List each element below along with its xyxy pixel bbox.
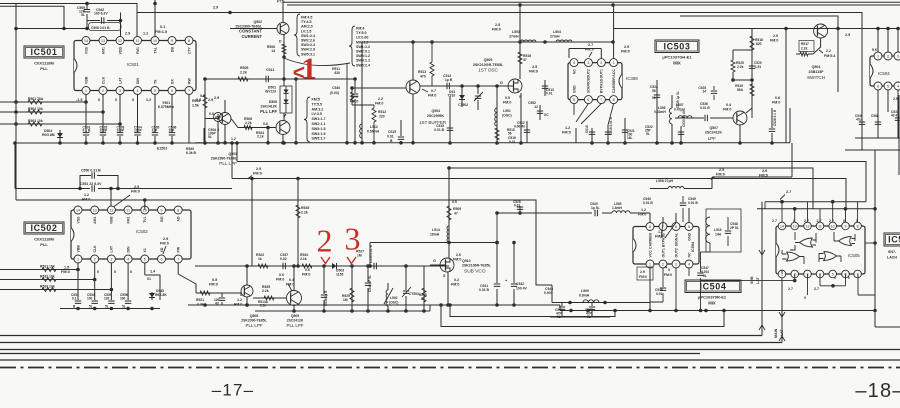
svg-text:1: 1	[77, 257, 79, 261]
resistor R506	[244, 126, 252, 130]
svg-text:9: 9	[845, 224, 847, 228]
svg-text:SWITCH: SWITCH	[807, 75, 825, 80]
svg-text:FM:0: FM:0	[529, 70, 538, 74]
IC504 label box	[685, 280, 741, 293]
shield box	[706, 209, 741, 252]
capacitor C509	[86, 4, 88, 10]
svg-text:6.375MHz: 6.375MHz	[158, 105, 174, 109]
svg-text:Q504: Q504	[431, 109, 440, 113]
svg-text:FM:0: FM:0	[759, 174, 768, 178]
capacitor C506	[168, 133, 175, 136]
capacitor C521	[624, 118, 626, 143]
svg-text:11: 11	[126, 208, 130, 212]
svg-text:2.2k: 2.2k	[240, 71, 247, 75]
bus line 4	[0, 353, 700, 355]
wire 1st osc gate row	[430, 85, 508, 87]
svg-text:5L: 5L	[105, 305, 109, 309]
svg-text:0.01 B: 0.01 B	[434, 128, 444, 132]
op IC504 package	[633, 227, 699, 265]
svg-text:4: 4	[127, 257, 129, 261]
inductor L504	[556, 40, 572, 42]
svg-text:5L: 5L	[208, 135, 212, 139]
svg-text:820: 820	[756, 42, 762, 46]
resistor R517 box	[799, 41, 814, 52]
svg-text:TY:5.0: TY:5.0	[356, 31, 367, 35]
svg-text:22: 22	[421, 297, 425, 301]
svg-text:OUT2: OUT2	[587, 69, 591, 78]
svg-text:0.6: 0.6	[305, 268, 310, 272]
resistor R505	[238, 77, 248, 81]
svg-text:2.2k: 2.2k	[737, 65, 744, 69]
svg-text:C515: C515	[388, 130, 396, 134]
svg-text:L509: L509	[581, 289, 589, 293]
svg-text:C0X1118M: C0X1118M	[34, 61, 54, 66]
wire top bus D y=12.5	[680, 16, 838, 29]
svg-text:1: 1	[301, 51, 317, 86]
svg-text:2.7: 2.7	[829, 219, 834, 223]
svg-text:C551 22 6.3V: C551 22 6.3V	[80, 182, 102, 186]
svg-text:0: 0	[848, 276, 850, 280]
wire IC501 bottom pin drops	[85, 95, 87, 144]
wire IC502 left rows	[0, 270, 111, 290]
capacitor C540	[354, 79, 356, 143]
wire x497 riser	[496, 213, 498, 243]
IC502 label box	[24, 222, 64, 234]
svg-text:5: 5	[887, 84, 889, 88]
svg-text:1.5k: 1.5k	[192, 104, 199, 108]
svg-text:9: 9	[161, 208, 163, 212]
wire ic505 right rail	[874, 209, 876, 327]
varactor D510	[461, 86, 463, 107]
svg-text:R545: R545	[301, 206, 309, 210]
svg-text:6: 6	[877, 84, 879, 88]
svg-text:8: 8	[857, 224, 859, 228]
svg-text:IC503: IC503	[663, 41, 690, 51]
svg-text:PLL: PLL	[40, 242, 48, 247]
svg-text:2.2k: 2.2k	[245, 121, 252, 125]
svg-text:OUT1: OUT1	[600, 69, 604, 78]
svg-text:5: 5	[144, 257, 146, 261]
svg-text:CARRIER: CARRIER	[612, 77, 616, 93]
wire 1st osc source	[520, 93, 522, 143]
svg-text:2.2k: 2.2k	[801, 47, 808, 51]
svg-text:12: 12	[534, 105, 538, 109]
svg-text:E1501: E1501	[157, 147, 167, 151]
resistor R522	[258, 264, 268, 268]
svg-text:0: 0	[114, 270, 116, 274]
svg-text:TAL: TAL	[153, 46, 157, 53]
svg-text:1.2: 1.2	[84, 193, 89, 197]
svg-text:100P: 100P	[100, 129, 109, 133]
svg-text:R513: R513	[418, 70, 426, 74]
svg-text:2.1k: 2.1k	[300, 257, 307, 261]
svg-text:0.01 B: 0.01 B	[700, 106, 710, 110]
wire left resistor rows	[0, 102, 120, 124]
wire ic505 top wires	[757, 202, 875, 209]
inductor L501 OSC	[496, 86, 498, 143]
wire Q511 base row	[196, 292, 241, 294]
svg-text:VBB: VBB	[110, 216, 114, 224]
svg-text:FM:0: FM:0	[585, 48, 594, 52]
svg-text:2.9: 2.9	[773, 34, 778, 38]
wire to IC504 pin1	[635, 268, 650, 311]
wire mid band y=178.5	[232, 143, 846, 209]
svg-text:MIX: MIX	[708, 301, 716, 306]
svg-text:1ST OSC: 1ST OSC	[478, 68, 498, 73]
svg-text:CTY: CTY	[187, 46, 191, 54]
svg-text:SUB: SUB	[750, 276, 754, 284]
svg-text:5L: 5L	[122, 305, 126, 309]
svg-text:5L: 5L	[652, 96, 656, 100]
svg-text:2SK2090-TE85L: 2SK2090-TE85L	[241, 319, 266, 323]
svg-text:R505: R505	[240, 66, 248, 70]
wire IC502 pin10 riser	[144, 200, 146, 210]
svg-text:27mH: 27mH	[550, 35, 560, 39]
svg-text:FM:0: FM:0	[492, 28, 501, 32]
svg-text:SW4:1.2: SW4:1.2	[356, 59, 370, 63]
svg-text:10: 10	[153, 39, 157, 43]
svg-text:DIN: DIN	[136, 78, 140, 85]
svg-text:IC502: IC502	[30, 223, 57, 233]
svg-text:SW2:2.6: SW2:2.6	[301, 39, 315, 43]
svg-text:13: 13	[93, 208, 97, 212]
svg-text:5L: 5L	[703, 274, 707, 278]
svg-text:27mH: 27mH	[509, 35, 519, 39]
trimmer CT502	[477, 86, 479, 110]
bus line 5	[0, 359, 900, 361]
svg-text:BO: BO	[160, 216, 164, 222]
svg-text:47μ: 47μ	[856, 118, 862, 122]
wire main bottom ground	[188, 305, 875, 311]
svg-text:2.7: 2.7	[804, 219, 809, 223]
svg-text:FM:0: FM:0	[428, 94, 436, 98]
svg-text:18mH: 18mH	[430, 233, 440, 237]
svg-text:2SK210GR-TE85L: 2SK210GR-TE85L	[473, 63, 504, 67]
svg-text:TY33: TY33	[447, 94, 455, 98]
inductor L505b	[612, 211, 630, 213]
svg-text:FM:0: FM:0	[350, 100, 358, 104]
svg-text:DB: DB	[170, 47, 174, 53]
svg-text:1: 1	[649, 262, 651, 266]
capacitor C512	[526, 121, 528, 143]
transistor Q507 lpf	[733, 111, 747, 125]
svg-text:6: 6	[171, 89, 173, 93]
svg-text:6: 6	[587, 98, 589, 102]
svg-text:AM:3.2: AM:3.2	[312, 107, 324, 111]
wire top bus C	[287, 4, 900, 6]
wire y=242.5	[370, 243, 497, 267]
svg-text:VSS: VSS	[84, 46, 88, 54]
capacitor C528r	[771, 108, 773, 143]
ground wire ic503 block riser	[789, 108, 791, 143]
svg-text:SIGNAL: SIGNAL	[674, 232, 678, 246]
svg-text:L504: L504	[553, 30, 561, 34]
op IC505 package	[776, 226, 865, 274]
capacitor C557	[221, 293, 223, 305]
svg-text:0.4: 0.4	[289, 278, 294, 282]
svg-text:–17–: –17–	[212, 381, 255, 400]
wire y79 extension	[284, 78, 355, 80]
svg-text:CONSTANT: CONSTANT	[239, 29, 262, 34]
svg-text:C0X1118M: C0X1118M	[34, 237, 54, 242]
capacitor C513	[544, 80, 546, 96]
svg-text:FM:0: FM:0	[503, 101, 511, 105]
svg-text:1.2: 1.2	[641, 208, 646, 212]
voltage list brace 3	[304, 97, 310, 142]
capacitor C536	[694, 117, 733, 119]
svg-text:1.2: 1.2	[565, 126, 570, 130]
inductor L509	[583, 300, 599, 303]
svg-text:(OSC): (OSC)	[502, 114, 512, 118]
svg-text:L519: L519	[714, 228, 722, 232]
inductor L514	[447, 226, 449, 242]
svg-text:VDD: VDD	[118, 47, 122, 55]
svg-text:12: 12	[118, 39, 122, 43]
resistor R545	[296, 205, 300, 218]
svg-text:0.8: 0.8	[200, 94, 205, 98]
capacitor C503	[116, 133, 123, 136]
svg-text:IC501: IC501	[30, 47, 57, 57]
svg-text:-1.5: -1.5	[76, 98, 83, 102]
svg-text:24: 24	[702, 90, 706, 94]
svg-text:(OSC): (OSC)	[389, 301, 398, 305]
svg-text:2.9: 2.9	[125, 32, 130, 36]
svg-text:LPF: LPF	[708, 136, 717, 141]
svg-text:0.82mH: 0.82mH	[654, 110, 666, 114]
inductor L519	[706, 217, 710, 243]
wire C551 branch	[15, 143, 232, 189]
capacitor C511	[266, 76, 268, 82]
svg-text:R503 10k: R503 10k	[28, 119, 43, 123]
svg-text:6.8mH: 6.8mH	[579, 294, 590, 298]
bus line 3	[0, 349, 900, 351]
svg-text:2.5: 2.5	[532, 65, 537, 69]
bus dash-dot line	[0, 367, 900, 369]
resistor R516	[519, 5, 521, 79]
svg-text:1k: 1k	[258, 257, 262, 261]
svg-text:0.7: 0.7	[431, 89, 436, 93]
svg-text:IC504: IC504	[878, 71, 890, 76]
svg-text:6: 6	[161, 257, 163, 261]
svg-text:12: 12	[806, 224, 810, 228]
capacitor C539	[374, 263, 376, 269]
svg-text:PLL LPF: PLL LPF	[260, 109, 277, 114]
svg-text:FM:0: FM:0	[621, 50, 630, 54]
capacitor C546	[650, 268, 663, 302]
svg-text:FM:0: FM:0	[209, 283, 218, 287]
svg-text:5: 5	[688, 225, 690, 229]
bus line 2	[0, 342, 782, 344]
svg-text:FM:0: FM:0	[253, 172, 262, 176]
svg-text:16L: 16L	[627, 136, 633, 140]
gate D or	[824, 252, 837, 261]
svg-text:IC5: IC5	[888, 235, 900, 245]
svg-text:FM:0: FM:0	[770, 39, 778, 43]
resistor R501	[28, 100, 42, 104]
svg-text:2.2: 2.2	[826, 49, 831, 53]
svg-text:FM:0: FM:0	[723, 108, 731, 112]
svg-text:Q507: Q507	[709, 126, 718, 130]
svg-text:8: 8	[649, 225, 651, 229]
transistor Q504 switch	[814, 24, 828, 38]
svg-text:1: 1	[877, 54, 879, 58]
svg-text:PW: PW	[177, 246, 181, 252]
ground wire far right	[855, 138, 900, 150]
svg-text:7: 7	[188, 89, 190, 93]
svg-text:FM:0: FM:0	[664, 273, 672, 277]
svg-text:FM:1.5: FM:1.5	[155, 30, 167, 34]
svg-text:L514: L514	[432, 228, 440, 232]
op IC501 package	[74, 41, 196, 91]
resistor R525	[264, 296, 274, 300]
inductor L506	[669, 108, 672, 124]
op IC502 package	[71, 210, 191, 259]
wire riser x=252	[251, 179, 253, 267]
svg-text:2.9: 2.9	[214, 96, 219, 100]
svg-text:12: 12	[109, 208, 113, 212]
capacitor C537	[283, 263, 285, 269]
svg-text:0.1: 0.1	[160, 25, 165, 29]
svg-text:0.01: 0.01	[509, 140, 516, 144]
wire riser pin12 IC502	[110, 189, 112, 207]
svg-text:LACH: LACH	[887, 256, 897, 260]
svg-text:FM:0: FM:0	[276, 278, 284, 282]
wire SUB LAT	[761, 202, 763, 336]
svg-text:FM:0: FM:0	[655, 235, 663, 239]
svg-text:0: 0	[98, 98, 100, 102]
svg-text:0.1 B: 0.1 B	[83, 129, 91, 133]
svg-text:Q508: Q508	[250, 314, 258, 318]
svg-text:OUT1: OUT1	[661, 248, 665, 257]
svg-text:FM:0: FM:0	[61, 270, 70, 274]
svg-text:NC: NC	[572, 69, 576, 75]
wire lpf out	[712, 143, 792, 177]
capacitor C520	[595, 210, 597, 216]
wire y=302.5 row	[552, 285, 635, 303]
svg-text:C519 0.01 B: C519 0.01 B	[609, 116, 613, 135]
wire Q512 base row	[253, 297, 286, 299]
svg-text:IC504: IC504	[699, 281, 726, 291]
svg-text:2P 5L: 2P 5L	[730, 226, 739, 230]
svg-text:FM:0: FM:0	[131, 190, 140, 194]
svg-text:13: 13	[793, 224, 797, 228]
svg-text:XD: XD	[160, 247, 164, 252]
svg-text:LV:0.60: LV:0.60	[356, 36, 368, 40]
svg-text:SW3:1.2: SW3:1.2	[356, 54, 370, 58]
svg-text:SW5:2.4: SW5:2.4	[356, 63, 370, 67]
wire right bottom corner	[875, 326, 900, 328]
transistor Q506	[219, 113, 231, 125]
svg-text:3: 3	[119, 89, 121, 93]
svg-text:R0G.8M: R0G.8M	[42, 133, 55, 137]
capacitor C524	[656, 80, 658, 143]
svg-text:C533 43 4V: C533 43 4V	[682, 109, 686, 127]
wire pin7 corner	[858, 294, 875, 296]
wire IC501 pin risers	[137, 0, 155, 37]
svg-text:2SC2995K: 2SC2995K	[427, 114, 445, 118]
svg-text:CT502: CT502	[458, 103, 468, 107]
svg-text:GND: GND	[687, 233, 691, 241]
wire y=213 row	[497, 213, 650, 223]
svg-text:4: 4	[573, 61, 575, 65]
svg-text:CLK: CLK	[93, 245, 97, 253]
wire main row y=266	[195, 265, 449, 267]
svg-text:0.5: 0.5	[505, 96, 510, 100]
svg-text:1M: 1M	[343, 298, 348, 302]
capacitor C514	[447, 83, 449, 89]
wire staircase 2	[450, 305, 615, 317]
svg-text:0.6: 0.6	[263, 122, 268, 126]
svg-text:X1: X1	[147, 277, 151, 281]
svg-text:FT:N: FT:N	[277, 0, 285, 4]
svg-text:AM:2.0: AM:2.0	[301, 25, 313, 29]
svg-text:0: 0	[115, 98, 117, 102]
wire IC369 pin risers	[569, 5, 614, 59]
svg-text:4: 4	[688, 262, 690, 266]
svg-text:FM:0: FM:0	[716, 173, 725, 177]
svg-text:2.2k: 2.2k	[262, 289, 269, 293]
svg-text:100P: 100P	[117, 129, 126, 133]
svg-text:5L: 5L	[646, 132, 650, 136]
svg-text:SN7-: SN7-	[888, 250, 897, 254]
svg-text:MAIN: MAIN	[774, 328, 778, 338]
svg-text:100 4V: 100 4V	[516, 287, 527, 291]
capacitor C556	[125, 301, 131, 303]
capacitor C538v	[323, 266, 325, 311]
capacitor C549s	[682, 196, 684, 222]
svg-text:2SC2412K: 2SC2412K	[287, 319, 304, 323]
svg-text:C538 1μ B: C538 1μ B	[324, 290, 328, 306]
svg-text:FM:0: FM:0	[453, 258, 461, 262]
svg-text:VBB: VBB	[76, 245, 80, 253]
svg-text:2: 2	[887, 54, 889, 58]
capacitor C541	[496, 243, 498, 306]
svg-text:2.9: 2.9	[208, 98, 213, 102]
ground wire under IC501	[15, 142, 237, 144]
svg-text:0.5: 0.5	[452, 200, 457, 204]
svg-text:OUT2: OUT2	[674, 248, 678, 257]
svg-text:1.8mH: 1.8mH	[612, 206, 623, 210]
svg-text:11: 11	[818, 224, 822, 228]
capacitor C515b	[400, 120, 402, 143]
capacitor C533r	[895, 118, 900, 120]
IC503 label box	[655, 40, 699, 53]
op IC504 small package	[870, 56, 900, 86]
wire IC502 right out	[178, 263, 196, 293]
ground wire PLL LPF	[195, 142, 790, 144]
svg-text:2.9: 2.9	[353, 95, 358, 99]
svg-text:IC501: IC501	[127, 62, 139, 67]
svg-text:SOURCE: SOURCE	[587, 77, 591, 93]
svg-text:C588: C588	[871, 114, 879, 118]
wire top bus E y=28.5	[613, 28, 898, 30]
svg-text:56A: 56A	[737, 88, 744, 92]
diode D545	[149, 293, 155, 298]
svg-text:C542: C542	[516, 282, 524, 286]
svg-text:AD: AD	[177, 216, 181, 222]
resistor R513	[430, 62, 434, 76]
svg-text:100: 100	[87, 297, 93, 301]
svg-text:BYPASS: BYPASS	[600, 78, 604, 93]
svg-text:VBB: VBB	[84, 76, 88, 84]
svg-text:GND: GND	[572, 85, 576, 93]
svg-text:3: 3	[110, 257, 112, 261]
capacitor C518	[589, 132, 595, 134]
resistor R521	[200, 291, 210, 295]
svg-text:10: 10	[831, 224, 835, 228]
svg-text:14: 14	[84, 39, 88, 43]
wire Q509 base row	[231, 119, 276, 143]
